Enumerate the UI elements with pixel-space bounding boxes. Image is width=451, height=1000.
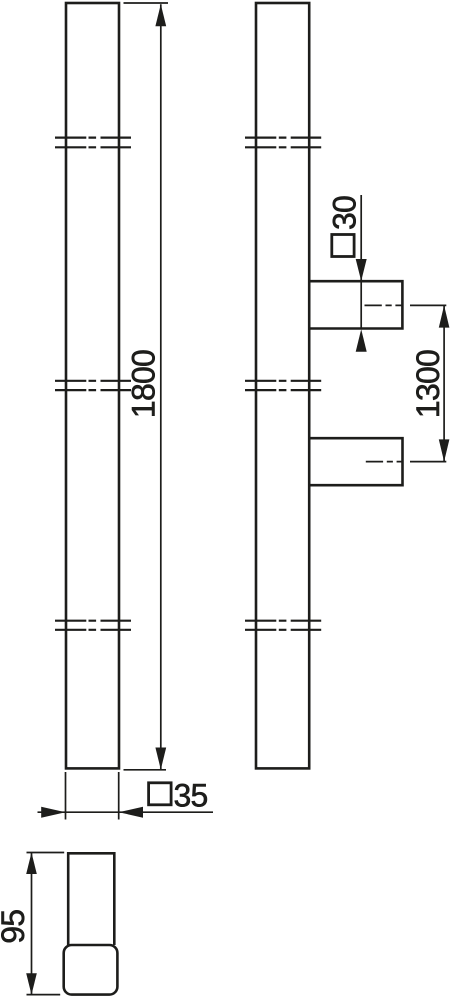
mounting post lower — [309, 438, 403, 485]
dimension 35 extension line left — [65, 772, 67, 820]
dimension 1800 extension line bottom — [124, 769, 167, 771]
extension line from lower centerline — [410, 461, 446, 463]
dimension 95 extension line top — [27, 852, 65, 854]
dimension 35 arrowhead left-pointing — [119, 807, 143, 818]
svg-text:95: 95 — [0, 910, 31, 944]
square symbol of 30 — [332, 235, 354, 257]
dimension 1800 extension line top — [124, 2, 169, 4]
square symbol of 35 — [149, 783, 172, 805]
svg-text:1300: 1300 — [410, 350, 446, 418]
centerline lower post — [366, 461, 404, 463]
dimension 95 extension line bottom — [27, 994, 61, 996]
right pull-handle tube outline (side view) — [256, 3, 309, 768]
dimension 95 line — [31, 853, 33, 995]
detail view tube neck — [68, 853, 114, 945]
break symbol left tube upper — [55, 138, 131, 148]
svg-text:1800: 1800 — [126, 350, 162, 418]
dimension 1800 arrowhead up — [155, 4, 166, 26]
dimension 35 extension line right — [118, 772, 120, 820]
break symbol left tube lower — [55, 621, 131, 630]
dimension 95 arrowhead down — [26, 973, 37, 995]
break symbol left tube middle — [55, 381, 131, 390]
dimension 1300 arrowhead down — [439, 439, 450, 461]
centerline upper post — [365, 304, 404, 306]
dimension 1800 arrowhead down — [155, 748, 166, 770]
dimension 30 arrowhead down at post top — [356, 259, 367, 281]
extension line from upper centerline — [410, 304, 446, 306]
dimension 1300 line — [443, 305, 445, 461]
dimension 1800 line — [160, 4, 162, 769]
break symbol right tube upper — [245, 138, 321, 148]
svg-text:30: 30 — [326, 196, 362, 230]
dimension 1300 arrowhead up — [439, 305, 450, 327]
break symbol right tube middle — [245, 381, 321, 390]
dimension 30 arrowhead up at post bottom — [356, 329, 367, 352]
dimension 35 line — [38, 811, 214, 813]
dimension 95 arrowhead up — [26, 853, 37, 875]
detail view grip foot rounded — [64, 945, 118, 995]
break symbol right tube lower — [245, 621, 321, 630]
mounting post upper — [309, 281, 402, 328]
svg-text:35: 35 — [174, 778, 208, 814]
dimension 35 arrowhead right-pointing — [41, 807, 65, 818]
left pull-handle tube outline — [66, 3, 119, 768]
dimension 30 line through post — [360, 195, 362, 329]
